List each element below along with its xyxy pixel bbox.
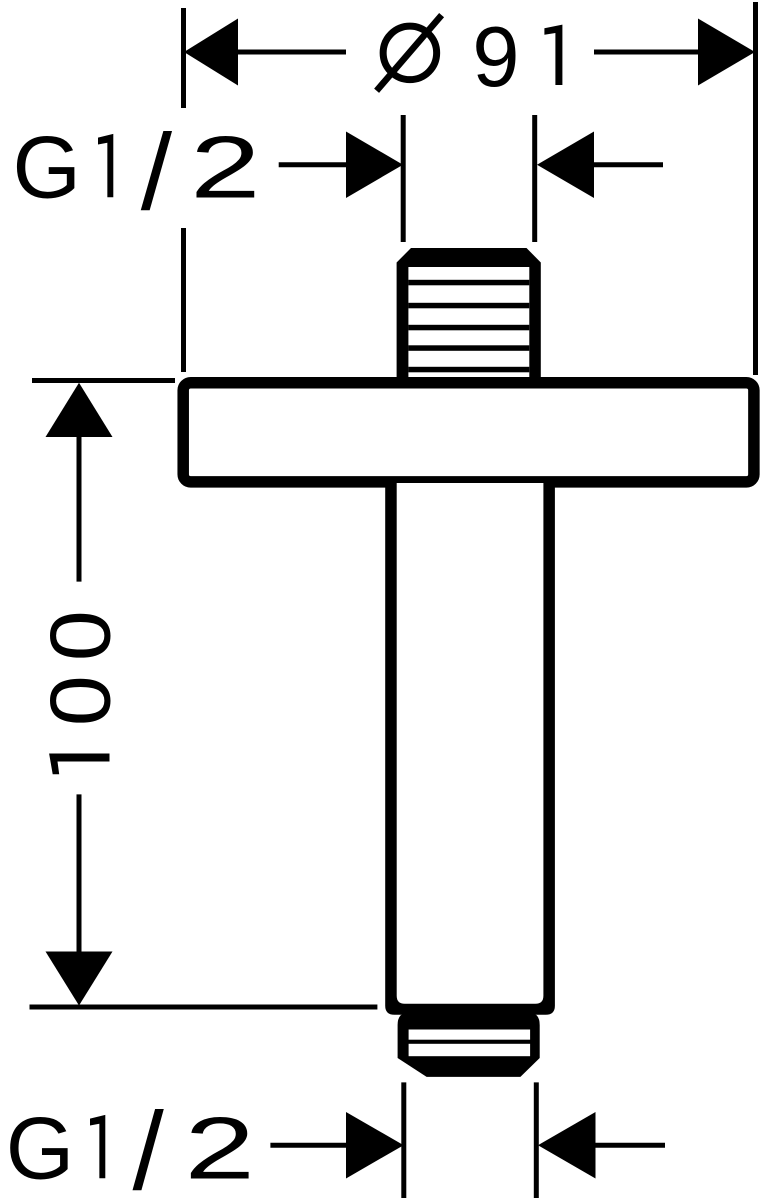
svg-text:G: G [6, 1098, 74, 1197]
svg-text:G: G [13, 117, 81, 216]
svg-text:2: 2 [185, 1099, 255, 1197]
svg-text:2: 2 [190, 118, 260, 216]
svg-text:0: 0 [33, 610, 128, 661]
svg-text:9: 9 [472, 10, 519, 105]
svg-text:/: / [133, 1089, 164, 1200]
svg-text:/: / [141, 112, 173, 232]
svg-text:0: 0 [33, 675, 128, 726]
